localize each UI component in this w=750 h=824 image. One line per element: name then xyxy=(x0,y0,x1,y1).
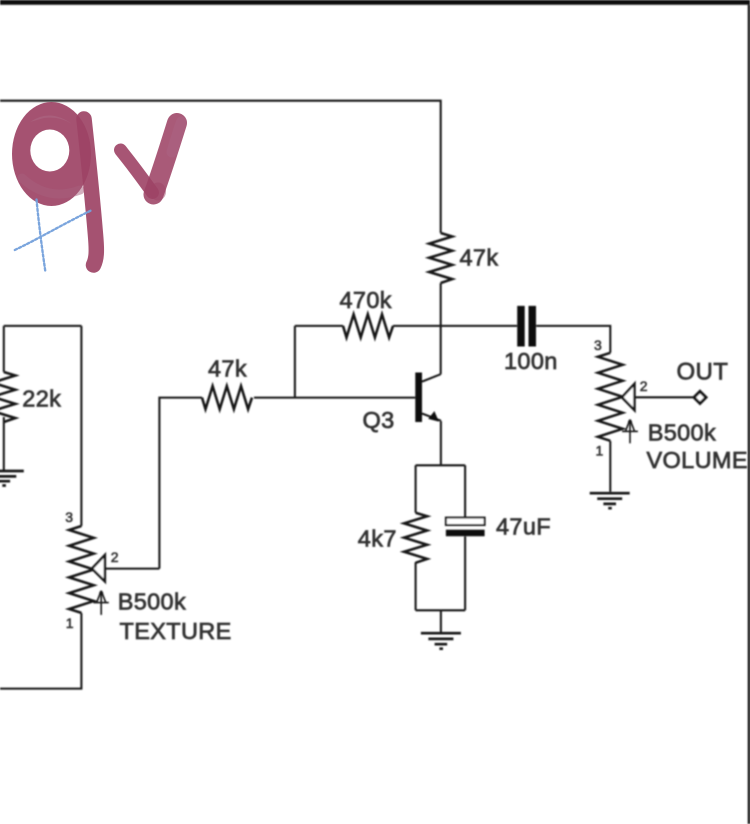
wire feedback mid rail left xyxy=(295,325,343,327)
svg-text:2: 2 xyxy=(111,549,119,565)
svg-text:3: 3 xyxy=(65,509,73,525)
wiper arrow of TEXTURE pot xyxy=(92,555,105,581)
top window edge bar xyxy=(0,0,750,5)
wire texture pot pin3 drop xyxy=(80,326,82,526)
handwritten checkmark (marker) xyxy=(121,122,182,201)
pot direction arrow VOLUME xyxy=(622,420,638,444)
svg-text:TEXTURE: TEXTURE xyxy=(120,618,232,644)
capacitor 47uF xyxy=(446,518,485,537)
wire 22k to ground xyxy=(3,417,5,470)
resistor 22k xyxy=(0,372,15,422)
wire 47k to base xyxy=(254,397,415,399)
wire volume pot to ground xyxy=(609,441,611,492)
svg-text:2: 2 xyxy=(640,378,648,394)
resistor 4k7 xyxy=(404,513,427,563)
wire RC box outline xyxy=(416,465,466,610)
resistor 47k horizontal xyxy=(202,386,252,409)
svg-text:B500k: B500k xyxy=(118,589,186,615)
transistor Q3 xyxy=(415,373,441,423)
potentiometer B500k TEXTURE element xyxy=(69,526,94,613)
svg-text:OUT: OUT xyxy=(677,359,729,386)
wire volume wiper to out xyxy=(636,396,695,398)
wire texture pot pin1 to left edge xyxy=(0,613,81,689)
right window edge bar xyxy=(748,5,750,824)
blue cross-out X xyxy=(15,200,92,273)
wire left box top xyxy=(4,325,82,327)
ground (volume pot) xyxy=(590,493,630,508)
wire 22k branch top xyxy=(3,326,5,372)
capacitor 100n xyxy=(517,306,536,347)
wire 9V top rail xyxy=(0,101,441,233)
svg-text:47k: 47k xyxy=(208,356,247,382)
ground (RC box) xyxy=(421,633,461,649)
svg-text:1: 1 xyxy=(596,443,604,459)
wire cap to volume pot xyxy=(536,326,610,353)
svg-text:Q3: Q3 xyxy=(363,407,395,433)
resistor 470k xyxy=(343,314,393,337)
wire emitter drop xyxy=(440,421,442,465)
handwritten 9 (marker) xyxy=(12,102,96,265)
pot direction arrow TEXTURE xyxy=(94,591,109,615)
svg-text:47uF: 47uF xyxy=(496,514,551,540)
wiper arrow of VOLUME pot xyxy=(622,384,635,410)
resistor 47k vertical xyxy=(429,233,452,283)
wire 47k collector drop xyxy=(440,283,442,374)
svg-text:100n: 100n xyxy=(504,348,558,374)
svg-text:VOLUME: VOLUME xyxy=(647,447,748,473)
out port diamond xyxy=(694,391,706,403)
svg-text:1: 1 xyxy=(66,615,74,631)
wire box to ground stub xyxy=(440,610,442,632)
wire feedback mid rail right xyxy=(393,325,517,327)
wire feedback drop to base rail xyxy=(294,326,296,398)
svg-text:3: 3 xyxy=(594,337,602,353)
svg-text:4k7: 4k7 xyxy=(358,526,397,552)
ground (22k) xyxy=(0,471,24,486)
svg-text:47k: 47k xyxy=(460,245,499,271)
svg-text:470k: 470k xyxy=(340,287,392,313)
svg-text:22k: 22k xyxy=(22,386,61,412)
potentiometer B500k VOLUME element xyxy=(598,353,623,441)
wire texture wiper to riser xyxy=(106,568,159,570)
svg-text:B500k: B500k xyxy=(648,420,716,446)
wire texture riser up to 47k xyxy=(159,398,202,569)
